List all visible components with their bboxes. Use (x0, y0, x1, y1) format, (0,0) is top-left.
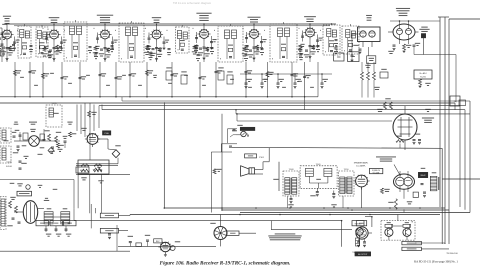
svg-text:SQUELCH: SQUELCH (372, 170, 381, 172)
svg-text:T-105: T-105 (6, 162, 12, 164)
svg-text:TR: TR (411, 222, 414, 224)
svg-text:T-148: T-148 (289, 169, 294, 171)
svg-text:T-205: T-205 (51, 103, 57, 105)
svg-text:RA PD 35-151 (Face page 300) N: RA PD 35-151 (Face page 300) No. 1 (414, 260, 458, 264)
svg-text:Figure 106. Radio Receiver R-: Figure 106. Radio Receiver R-19/TRC-1, s… (160, 261, 291, 267)
svg-text:XTAL: XTAL (104, 132, 109, 135)
svg-text:D-C AMPL: D-C AMPL (356, 165, 366, 168)
svg-text:B+ ADJ: B+ ADJ (420, 72, 427, 75)
svg-text:E-106: E-106 (6, 166, 12, 168)
svg-text:P101: P101 (259, 157, 265, 159)
svg-text:THERMO: THERMO (355, 223, 363, 225)
svg-text:R-231: R-231 (420, 77, 426, 79)
svg-text:T-149: T-149 (316, 164, 321, 166)
svg-text:TM 11-xxx schematic diagram: TM 11-xxx schematic diagram (173, 1, 212, 5)
svg-text:TM 566-106: TM 566-106 (446, 253, 458, 255)
svg-text:T-150: T-150 (344, 169, 349, 171)
svg-text:SPEAKER AMPL: SPEAKER AMPL (354, 162, 369, 165)
svg-text:VOLUME: VOLUME (373, 172, 380, 174)
